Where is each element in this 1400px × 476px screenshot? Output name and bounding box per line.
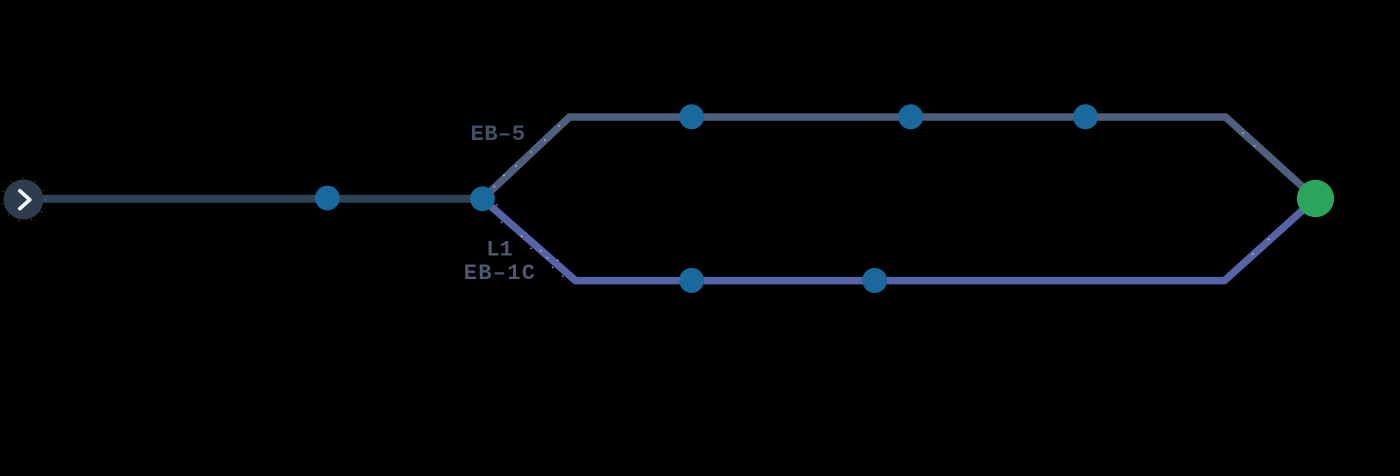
svg-text:EB–5: EB–5 xyxy=(470,121,525,147)
main line xyxy=(24,195,483,203)
branch L1 EB-1C lower line xyxy=(483,199,1316,281)
station dot upper 2 xyxy=(898,104,923,129)
junction dot xyxy=(470,186,495,211)
start node chevron xyxy=(20,191,30,209)
start node circle xyxy=(4,180,44,220)
station dot lower 2 xyxy=(862,268,887,293)
station dot upper 3 xyxy=(1073,104,1098,129)
station dot main xyxy=(315,186,340,211)
svg-text:EB–1C: EB–1C xyxy=(464,261,537,286)
branch EB-5 upper line xyxy=(483,117,1316,199)
svg-text:L1: L1 xyxy=(486,238,512,263)
station dot upper 1 xyxy=(679,104,704,129)
end node green xyxy=(1297,180,1334,217)
particle specks xyxy=(494,125,1270,277)
start node dotted ring xyxy=(2,178,45,221)
station dot lower 1 xyxy=(679,268,704,293)
